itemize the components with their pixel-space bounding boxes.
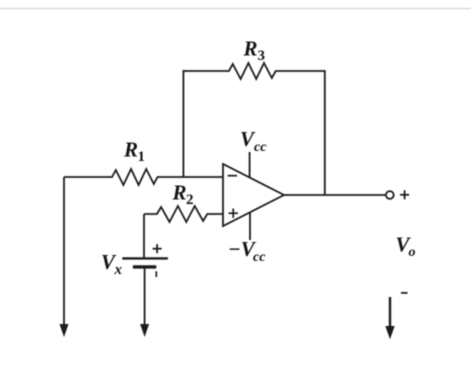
svg-text:cc: cc (253, 250, 266, 265)
resistor R3 (183, 37, 324, 80)
ground: middle down arrow (140, 324, 149, 337)
svg-text:R: R (243, 37, 258, 61)
svg-text:x: x (114, 262, 123, 278)
resistor R1 (64, 138, 223, 186)
-Vcc supply (228, 212, 266, 265)
wire: left input vertical (63, 177, 65, 325)
svg-text:1: 1 (138, 149, 146, 165)
ground: left down arrow (60, 324, 69, 337)
wire: R2 left corner down to battery (143, 214, 145, 258)
Vcc supply (240, 127, 267, 178)
output reference down arrow (385, 297, 394, 339)
op-amp inverting input (-) (228, 175, 237, 177)
svg-text:2: 2 (186, 192, 194, 208)
svg-text:cc: cc (254, 140, 267, 155)
svg-text:3: 3 (258, 48, 266, 64)
Vo label (396, 233, 416, 261)
battery Vx (101, 244, 168, 278)
wire: battery to bottom arrow (144, 267, 146, 325)
+ polarity label at output (400, 190, 409, 199)
svg-text:R: R (172, 181, 187, 205)
- polarity label at output (401, 292, 408, 294)
svg-text:R: R (123, 138, 138, 162)
svg-text:o: o (409, 245, 416, 260)
op-amp non-inverting input (+) (229, 209, 238, 218)
resistor R2 (144, 181, 223, 223)
op-amp (223, 164, 284, 226)
wire: R3 left vertical (182, 70, 184, 177)
wire: op-amp output to terminal (284, 194, 386, 196)
output terminal (open circle) (386, 191, 394, 199)
wire: R3 right vertical (feedback to output) (324, 70, 326, 195)
